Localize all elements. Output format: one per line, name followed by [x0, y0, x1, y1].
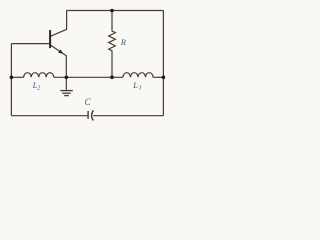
svg-text:C: C	[85, 97, 92, 107]
svg-text:R: R	[120, 37, 127, 47]
svg-text:1: 1	[139, 86, 142, 92]
svg-text:2: 2	[37, 86, 40, 92]
svg-text:L: L	[132, 80, 138, 90]
